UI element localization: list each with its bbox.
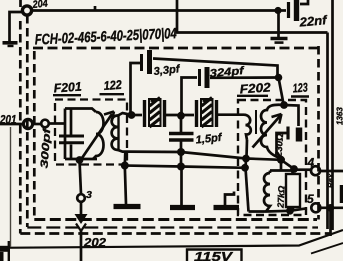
svg-text:4: 4 (307, 156, 315, 170)
svg-text:22nf: 22nf (298, 13, 329, 30)
svg-text:27kΩ: 27kΩ (275, 186, 286, 210)
svg-text:F201: F201 (53, 80, 82, 96)
svg-text:122: 122 (103, 78, 122, 93)
svg-text:F202: F202 (239, 80, 271, 96)
svg-text:201: 201 (0, 115, 17, 127)
svg-text:Rвх: Rвх (326, 173, 335, 188)
svg-text:123: 123 (292, 80, 308, 95)
svg-text:230Ω: 230Ω (273, 133, 286, 159)
svg-text:204: 204 (31, 0, 48, 11)
svg-text:202: 202 (83, 236, 106, 250)
svg-text:5: 5 (307, 192, 314, 206)
svg-text:3: 3 (86, 189, 92, 201)
svg-text:1363: 1363 (336, 107, 343, 125)
svg-text:115V: 115V (194, 249, 234, 261)
